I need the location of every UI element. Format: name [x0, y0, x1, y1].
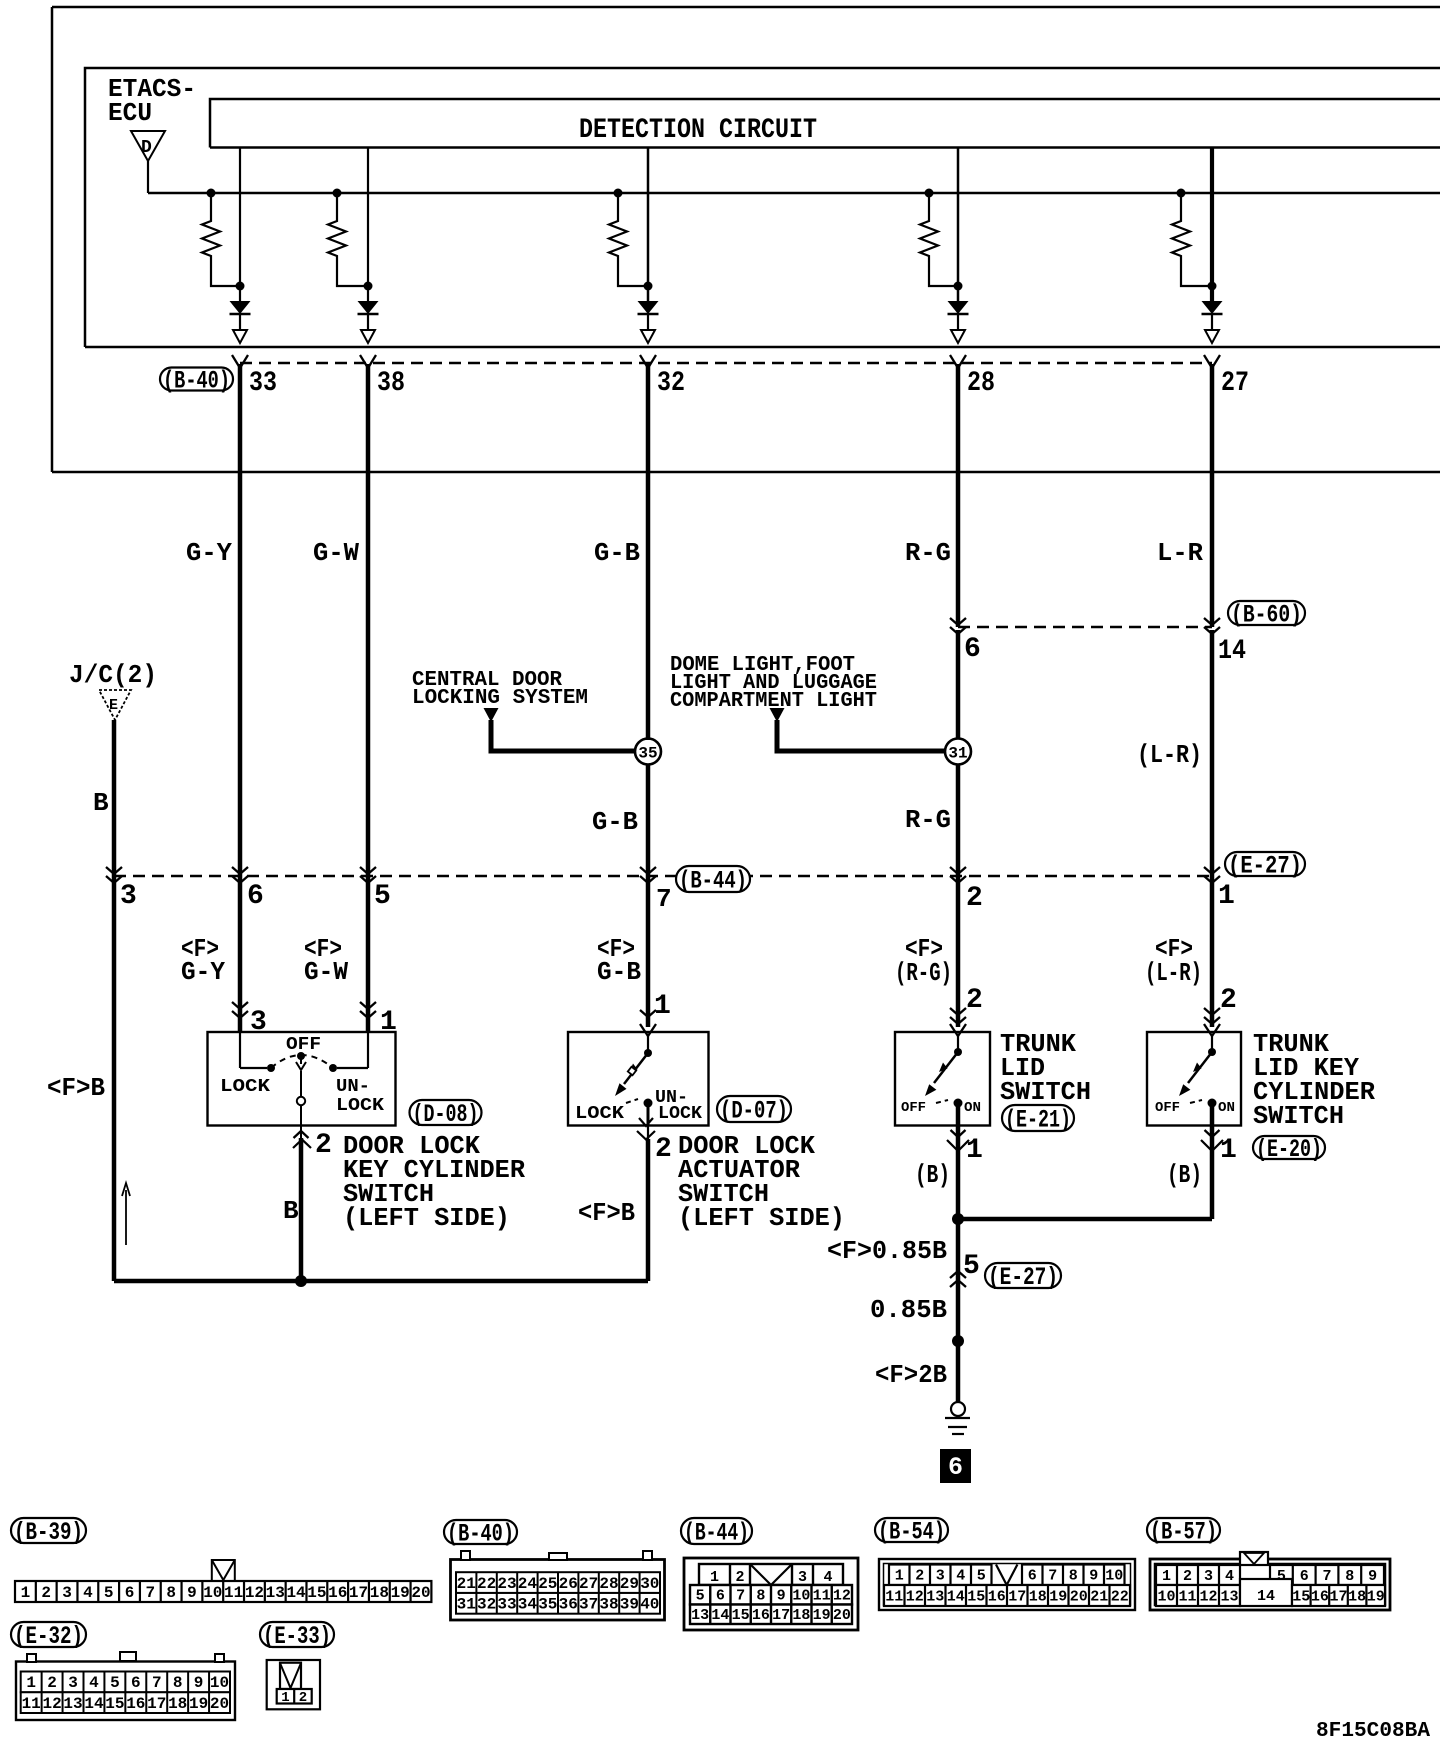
svg-text:(B): (B) — [915, 1160, 950, 1190]
svg-text:4: 4 — [1225, 1568, 1234, 1585]
svg-text:(B-44): (B-44) — [684, 1519, 749, 1548]
svg-text:2: 2 — [966, 883, 983, 914]
svg-text:OFF: OFF — [286, 1035, 321, 1055]
svg-text:3: 3 — [68, 1674, 78, 1692]
svg-text:<F>0.85B: <F>0.85B — [827, 1236, 947, 1266]
svg-text:8F15C08BA: 8F15C08BA — [1316, 1720, 1430, 1742]
svg-text:DETECTION CIRCUIT: DETECTION CIRCUIT — [579, 115, 817, 146]
svg-text:25: 25 — [538, 1575, 557, 1593]
svg-text:4: 4 — [956, 1568, 965, 1585]
svg-text:36: 36 — [559, 1596, 578, 1614]
svg-text:13: 13 — [926, 1588, 944, 1605]
svg-text:15: 15 — [105, 1695, 124, 1713]
svg-text:B: B — [93, 788, 109, 818]
svg-text:OFF: OFF — [901, 1100, 926, 1116]
svg-text:(D-07): (D-07) — [720, 1097, 788, 1126]
svg-text:B: B — [283, 1196, 299, 1226]
svg-text:19: 19 — [1049, 1588, 1067, 1605]
svg-text:20: 20 — [833, 1607, 851, 1624]
svg-text:(R-G): (R-G) — [895, 958, 952, 988]
svg-text:1: 1 — [1218, 881, 1235, 912]
svg-text:6: 6 — [1028, 1568, 1037, 1585]
svg-text:9: 9 — [1368, 1568, 1377, 1585]
svg-text:ON: ON — [964, 1100, 981, 1116]
svg-text:14: 14 — [84, 1695, 104, 1713]
svg-text:9: 9 — [777, 1588, 786, 1605]
svg-text:5: 5 — [374, 881, 391, 912]
svg-text:7: 7 — [152, 1674, 162, 1692]
svg-text:20: 20 — [210, 1695, 229, 1713]
svg-text:16: 16 — [752, 1607, 770, 1624]
svg-text:39: 39 — [620, 1596, 639, 1614]
svg-text:35: 35 — [638, 745, 657, 763]
svg-text:<F>B: <F>B — [47, 1073, 105, 1103]
svg-text:37: 37 — [579, 1596, 598, 1614]
svg-text:7: 7 — [146, 1584, 156, 1602]
svg-text:1: 1 — [281, 1690, 289, 1706]
svg-text:(E-27): (E-27) — [1228, 852, 1302, 881]
svg-text:10: 10 — [1157, 1588, 1175, 1605]
svg-text:1: 1 — [966, 1135, 983, 1166]
svg-text:1: 1 — [21, 1584, 31, 1602]
svg-text:G-Y: G-Y — [186, 538, 232, 568]
svg-text:UN-: UN- — [336, 1077, 370, 1097]
svg-text:10: 10 — [792, 1588, 810, 1605]
svg-text:21: 21 — [1090, 1588, 1108, 1605]
svg-text:12: 12 — [833, 1588, 851, 1605]
svg-text:8: 8 — [756, 1588, 765, 1605]
svg-text:33: 33 — [497, 1596, 516, 1614]
svg-text:2: 2 — [47, 1674, 57, 1692]
svg-text:1: 1 — [654, 991, 671, 1022]
svg-text:SWITCH: SWITCH — [1000, 1077, 1091, 1107]
svg-text:18: 18 — [1029, 1588, 1047, 1605]
svg-text:35: 35 — [538, 1596, 557, 1614]
svg-text:12: 12 — [906, 1588, 924, 1605]
svg-text:G-W: G-W — [304, 957, 348, 987]
svg-text:31: 31 — [457, 1596, 476, 1614]
svg-text:6: 6 — [1300, 1568, 1309, 1585]
svg-text:38: 38 — [377, 368, 405, 399]
svg-text:(B-57): (B-57) — [1150, 1518, 1217, 1547]
svg-text:3: 3 — [1204, 1568, 1213, 1585]
svg-text:9: 9 — [187, 1584, 197, 1602]
svg-text:(L-R): (L-R) — [1145, 958, 1202, 988]
svg-text:17: 17 — [349, 1584, 368, 1602]
svg-text:10: 10 — [203, 1584, 222, 1602]
svg-text:(E-32): (E-32) — [14, 1622, 83, 1651]
svg-text:28: 28 — [967, 368, 995, 399]
svg-text:<F>2B: <F>2B — [875, 1360, 947, 1390]
svg-text:19: 19 — [391, 1584, 410, 1602]
svg-text:6: 6 — [247, 881, 264, 912]
svg-text:ON: ON — [1218, 1100, 1235, 1116]
svg-text:2: 2 — [915, 1568, 924, 1585]
svg-text:28: 28 — [599, 1575, 618, 1593]
svg-text:14: 14 — [286, 1584, 306, 1602]
svg-text:3: 3 — [120, 881, 137, 912]
svg-text:2: 2 — [655, 1134, 672, 1165]
svg-text:E: E — [109, 697, 118, 714]
svg-text:(D-08): (D-08) — [413, 1100, 479, 1129]
svg-text:5: 5 — [977, 1568, 986, 1585]
svg-text:32: 32 — [657, 368, 685, 399]
svg-text:2: 2 — [41, 1584, 51, 1602]
svg-text:G-Y: G-Y — [181, 957, 225, 987]
svg-text:1: 1 — [26, 1674, 36, 1692]
svg-text:G-B: G-B — [594, 538, 640, 568]
svg-text:OFF: OFF — [1155, 1100, 1180, 1116]
svg-text:LOCK: LOCK — [336, 1096, 384, 1116]
svg-text:32: 32 — [477, 1596, 496, 1614]
svg-text:8: 8 — [173, 1674, 183, 1692]
svg-text:LOCK: LOCK — [658, 1104, 702, 1124]
svg-text:26: 26 — [559, 1575, 578, 1593]
svg-text:34: 34 — [518, 1596, 538, 1614]
svg-text:(B-40): (B-40) — [447, 1520, 514, 1549]
svg-text:2: 2 — [299, 1690, 307, 1706]
svg-text:11: 11 — [224, 1584, 243, 1602]
svg-text:<F>B: <F>B — [578, 1198, 635, 1228]
svg-text:27: 27 — [579, 1575, 598, 1593]
svg-text:11: 11 — [22, 1695, 41, 1713]
svg-text:30: 30 — [640, 1575, 659, 1593]
svg-text:19: 19 — [1367, 1588, 1385, 1605]
svg-text:15: 15 — [732, 1607, 750, 1624]
svg-text:7: 7 — [656, 884, 672, 914]
svg-text:15: 15 — [967, 1588, 985, 1605]
svg-text:20: 20 — [411, 1584, 430, 1602]
svg-text:(B-54): (B-54) — [878, 1518, 945, 1547]
svg-text:7: 7 — [1048, 1568, 1057, 1585]
svg-text:5: 5 — [696, 1588, 705, 1605]
svg-text:6: 6 — [964, 634, 981, 665]
svg-text:6: 6 — [131, 1674, 141, 1692]
svg-text:17: 17 — [1008, 1588, 1026, 1605]
svg-text:11: 11 — [885, 1588, 903, 1605]
svg-text:11: 11 — [813, 1588, 831, 1605]
svg-text:5: 5 — [104, 1584, 114, 1602]
svg-text:19: 19 — [813, 1607, 831, 1624]
svg-text:40: 40 — [640, 1596, 659, 1614]
svg-text:ECU: ECU — [108, 98, 152, 128]
svg-text:(E-20): (E-20) — [1256, 1135, 1322, 1164]
svg-text:R-G: R-G — [905, 805, 951, 835]
svg-text:38: 38 — [599, 1596, 618, 1614]
svg-text:0.85B: 0.85B — [870, 1295, 947, 1325]
svg-text:LOCKING SYSTEM: LOCKING SYSTEM — [412, 687, 588, 710]
svg-text:31: 31 — [948, 745, 967, 763]
svg-text:(L-R): (L-R) — [1137, 740, 1202, 770]
svg-text:16: 16 — [328, 1584, 347, 1602]
svg-text:21: 21 — [457, 1575, 476, 1593]
svg-text:(B-44): (B-44) — [679, 867, 747, 896]
svg-text:2: 2 — [1220, 985, 1237, 1016]
svg-text:2: 2 — [1183, 1568, 1192, 1585]
svg-text:4: 4 — [83, 1584, 93, 1602]
svg-text:17: 17 — [147, 1695, 166, 1713]
svg-text:12: 12 — [245, 1584, 264, 1602]
svg-text:8: 8 — [1345, 1568, 1354, 1585]
svg-text:LOCK: LOCK — [575, 1104, 624, 1124]
svg-text:6: 6 — [716, 1588, 725, 1605]
svg-text:J/C(2): J/C(2) — [69, 660, 157, 690]
svg-text:11: 11 — [1178, 1588, 1196, 1605]
svg-text:3: 3 — [936, 1568, 945, 1585]
svg-text:LOCK: LOCK — [220, 1077, 270, 1097]
svg-text:8: 8 — [1069, 1568, 1078, 1585]
svg-text:1: 1 — [710, 1569, 719, 1586]
svg-text:22: 22 — [1111, 1588, 1129, 1605]
svg-text:16: 16 — [126, 1695, 145, 1713]
svg-text:2: 2 — [315, 1130, 332, 1161]
svg-text:3: 3 — [62, 1584, 72, 1602]
svg-text:13: 13 — [1220, 1588, 1238, 1605]
svg-text:1: 1 — [1162, 1568, 1171, 1585]
svg-text:(B-60): (B-60) — [1231, 601, 1302, 630]
svg-text:6: 6 — [948, 1453, 963, 1482]
svg-text:SWITCH: SWITCH — [1253, 1101, 1344, 1131]
svg-text:20: 20 — [1070, 1588, 1088, 1605]
svg-text:19: 19 — [189, 1695, 208, 1713]
svg-text:33: 33 — [249, 368, 277, 399]
svg-text:13: 13 — [691, 1607, 709, 1624]
svg-text:18: 18 — [1348, 1588, 1366, 1605]
svg-text:9: 9 — [1089, 1568, 1098, 1585]
svg-text:5: 5 — [110, 1674, 120, 1692]
svg-text:14: 14 — [1257, 1588, 1275, 1605]
svg-text:2: 2 — [735, 1569, 744, 1586]
svg-text:29: 29 — [620, 1575, 639, 1593]
svg-text:9: 9 — [194, 1674, 204, 1692]
svg-text:4: 4 — [823, 1569, 832, 1586]
svg-text:(E-33): (E-33) — [263, 1622, 331, 1651]
svg-text:2: 2 — [966, 985, 983, 1016]
svg-text:1: 1 — [1220, 1135, 1237, 1166]
svg-text:24: 24 — [518, 1575, 538, 1593]
svg-text:17: 17 — [772, 1607, 790, 1624]
svg-text:22: 22 — [477, 1575, 496, 1593]
svg-text:15: 15 — [307, 1584, 326, 1602]
svg-text:R-G: R-G — [905, 538, 951, 568]
svg-text:(B-40): (B-40) — [163, 367, 230, 396]
svg-text:13: 13 — [63, 1695, 82, 1713]
svg-text:10: 10 — [1105, 1568, 1123, 1585]
svg-text:14: 14 — [1218, 636, 1246, 667]
svg-text:(LEFT SIDE): (LEFT SIDE) — [343, 1203, 510, 1233]
svg-text:1: 1 — [895, 1568, 904, 1585]
svg-text:18: 18 — [792, 1607, 810, 1624]
svg-text:(B): (B) — [1167, 1160, 1202, 1190]
svg-text:G-W: G-W — [313, 538, 359, 568]
svg-text:7: 7 — [1322, 1568, 1331, 1585]
svg-text:3: 3 — [798, 1569, 807, 1586]
svg-text:G-B: G-B — [597, 957, 641, 987]
svg-text:23: 23 — [497, 1575, 516, 1593]
svg-text:(E-21): (E-21) — [1005, 1106, 1071, 1135]
svg-text:12: 12 — [1199, 1588, 1217, 1605]
svg-text:18: 18 — [370, 1584, 389, 1602]
svg-text:8: 8 — [166, 1584, 176, 1602]
svg-text:14: 14 — [947, 1588, 965, 1605]
svg-text:15: 15 — [1292, 1588, 1310, 1605]
svg-text:L-R: L-R — [1157, 538, 1203, 568]
svg-text:16: 16 — [988, 1588, 1006, 1605]
svg-text:(E-27): (E-27) — [988, 1263, 1058, 1292]
svg-text:27: 27 — [1221, 368, 1249, 399]
svg-text:14: 14 — [711, 1607, 729, 1624]
svg-text:13: 13 — [266, 1584, 285, 1602]
svg-text:10: 10 — [210, 1674, 229, 1692]
svg-text:(B-39): (B-39) — [14, 1518, 83, 1547]
svg-text:18: 18 — [168, 1695, 187, 1713]
svg-text:G-B: G-B — [592, 807, 638, 837]
svg-text:4: 4 — [89, 1674, 99, 1692]
svg-text:D: D — [141, 138, 152, 158]
svg-text:16: 16 — [1311, 1588, 1329, 1605]
svg-text:(LEFT SIDE): (LEFT SIDE) — [678, 1203, 845, 1233]
svg-text:12: 12 — [42, 1695, 61, 1713]
svg-text:17: 17 — [1329, 1588, 1347, 1605]
svg-text:7: 7 — [736, 1588, 745, 1605]
svg-text:6: 6 — [125, 1584, 135, 1602]
